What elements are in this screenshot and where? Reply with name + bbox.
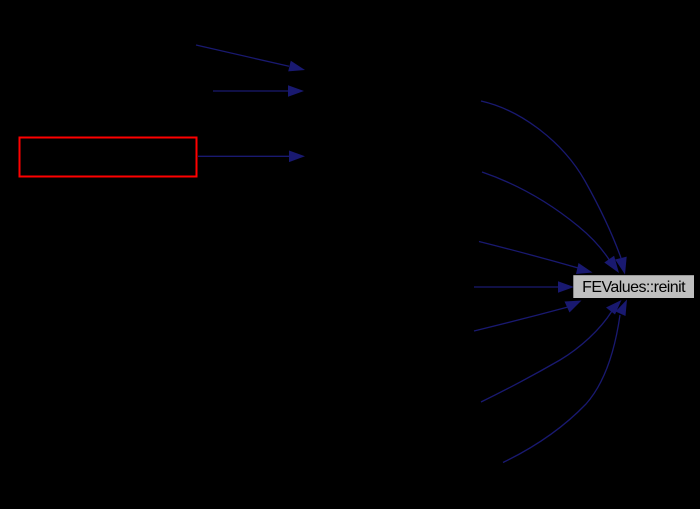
edge L1: top-left caller to mid node (196, 45, 289, 66)
edge E6: mid node to FEValues::reinit (curve from below) (481, 311, 612, 402)
edge E1: mid node to FEValues::reinit (steep curve from top) (481, 101, 621, 258)
arrowhead E7 (616, 300, 628, 317)
arrowhead L2 (288, 85, 304, 97)
edge L3: red box to mid node (198, 155, 289, 157)
arrowhead L3 (289, 151, 305, 163)
edge E2: mid node to FEValues::reinit (upper curve) (482, 172, 610, 261)
edge L2: left caller to mid node (213, 90, 288, 92)
edge E3: mid node to FEValues::reinit (gentle upper-left) (479, 242, 580, 269)
arrowhead E2 (604, 256, 619, 273)
edge E4: mid node to FEValues::reinit (horizontal) (474, 286, 558, 288)
arrowhead E3 (576, 263, 593, 274)
arrowhead E4 (558, 281, 574, 293)
arrowhead E1 (615, 257, 627, 275)
svg-text:FEValues::reinit: FEValues::reinit (582, 279, 686, 296)
node: red caller box (current function, label black-on-black) (20, 138, 197, 177)
arrowhead L1 (288, 61, 305, 72)
node FEValues::reinit (grey) (573, 275, 694, 298)
arrowhead E5 (565, 301, 582, 313)
edge E5: mid node to FEValues::reinit (lower-left gentle) (474, 307, 568, 331)
edge E7: mid node to FEValues::reinit (steep curve from bottom) (503, 315, 620, 463)
arrowhead E6 (606, 300, 622, 315)
